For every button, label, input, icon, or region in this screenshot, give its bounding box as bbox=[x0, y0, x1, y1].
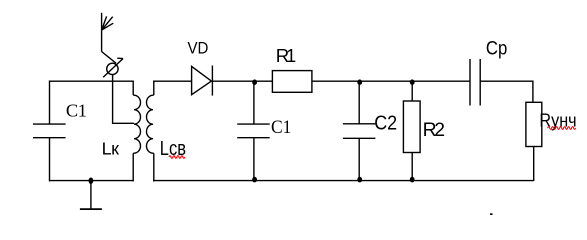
svg-text:Rунч: Rунч bbox=[539, 109, 576, 130]
svg-text:Lк: Lк bbox=[102, 138, 119, 158]
inductor Lk bbox=[133, 81, 140, 182]
wire C1 branch top bbox=[49, 81, 51, 125]
svg-text:R2: R2 bbox=[423, 119, 445, 141]
resistor R1 bbox=[272, 71, 312, 93]
wire C2 branch bottom bbox=[358, 138, 360, 181]
capacitor C1b bbox=[237, 124, 270, 138]
wire Cp to Runch bbox=[480, 81, 533, 102]
node bottom junction C1b bbox=[252, 177, 257, 183]
wire antenna drop to coil tap bbox=[113, 75, 135, 123]
wire C2 branch top bbox=[358, 81, 360, 124]
wire R2 branch top bbox=[411, 81, 413, 101]
svg-text:C1: C1 bbox=[271, 117, 291, 138]
antenna bbox=[102, 13, 117, 63]
svg-text:Cp: Cp bbox=[486, 38, 507, 60]
node top junction R2 bbox=[410, 79, 415, 85]
antenna connector X1 bbox=[103, 58, 123, 77]
wire Runch bottom bbox=[533, 147, 535, 182]
capacitor C2 bbox=[343, 124, 376, 139]
wire C1 branch bottom bbox=[49, 138, 51, 182]
wire R1 to Cp bbox=[312, 80, 470, 82]
node top junction C2 bbox=[357, 79, 362, 85]
spellcheck squiggle under unch bbox=[548, 127, 576, 130]
spellcheck squiggle under sv bbox=[169, 156, 185, 159]
wire bottom left bbox=[50, 180, 134, 182]
node top junction C1 bbox=[252, 79, 257, 85]
node bottom junction C2 bbox=[357, 177, 362, 183]
wire diode to R1 bbox=[212, 80, 272, 82]
resistor Runch bbox=[526, 102, 542, 146]
capacitor Cp bbox=[470, 59, 480, 106]
node ground junction bbox=[89, 178, 94, 184]
svg-text:R1: R1 bbox=[276, 45, 296, 66]
svg-text:C2: C2 bbox=[374, 113, 397, 135]
svg-text:C1: C1 bbox=[66, 101, 87, 121]
wire Lsv to diode bbox=[153, 80, 192, 82]
ground bbox=[80, 181, 102, 209]
punctuation dot bottom bbox=[490, 213, 492, 215]
diode VD bbox=[192, 66, 213, 96]
resistor R2 bbox=[403, 101, 420, 153]
node bottom junction R2 bbox=[410, 177, 415, 183]
wire C1b branch top bbox=[253, 81, 255, 124]
inductor Lsv bbox=[147, 81, 154, 182]
wire C1b branch bottom bbox=[253, 138, 255, 181]
wire bottom secondary bbox=[153, 180, 533, 182]
wire R2 branch bottom bbox=[411, 153, 413, 182]
svg-text:VD: VD bbox=[188, 38, 209, 57]
capacitor C1 bbox=[33, 124, 66, 138]
wire top left (C1 to Lk) bbox=[50, 80, 134, 82]
